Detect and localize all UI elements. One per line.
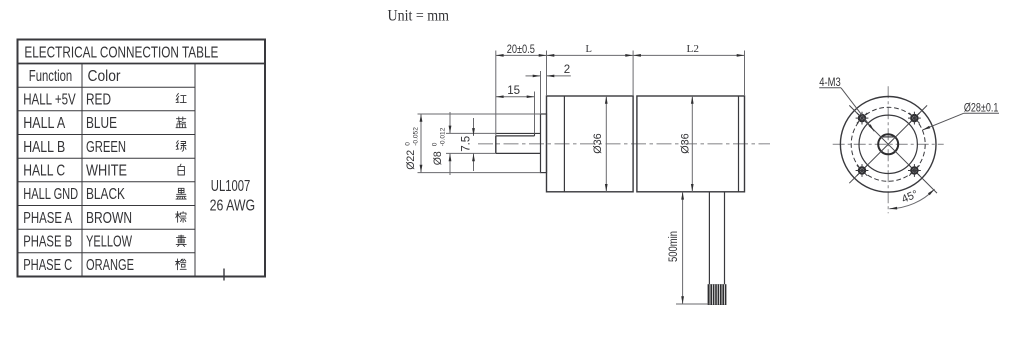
extension line boss left — [540, 71, 542, 114]
svg-text:26 AWG: 26 AWG — [210, 198, 256, 215]
svg-text:500min: 500min — [668, 231, 680, 262]
45 degree angle dimension — [889, 189, 934, 209]
mounting hole M3 bottom-left — [859, 167, 865, 173]
table row lines — [18, 87, 196, 253]
dimension Ø36 gearbox — [605, 96, 607, 192]
svg-text:Color: Color — [88, 68, 121, 85]
svg-text:-0.052: -0.052 — [413, 127, 420, 146]
dimension L2 — [633, 54, 744, 56]
mounting hole M3 top-left — [859, 115, 865, 121]
svg-text:Ø36: Ø36 — [592, 133, 604, 154]
chinese character 黑 hei (black) — [176, 188, 186, 199]
svg-text:BROWN: BROWN — [86, 210, 132, 227]
dimension Ø8 with tolerance — [449, 112, 451, 133]
chinese character 黄 huang (yellow) — [176, 235, 186, 246]
svg-text:ELECTRICAL CONNECTION TABLE: ELECTRICAL CONNECTION TABLE — [24, 45, 218, 62]
svg-text:45°: 45° — [900, 188, 920, 206]
diagonal centerline SW-NE — [849, 105, 927, 183]
dimension Ø36 motor — [691, 96, 693, 192]
extension line flat end — [534, 92, 536, 134]
svg-text:-0.012: -0.012 — [439, 127, 446, 146]
extension lines Ø8 shaft — [446, 132, 496, 134]
extension line motor rear — [744, 51, 746, 97]
svg-text:0: 0 — [405, 142, 412, 146]
svg-text:PHASE A: PHASE A — [23, 210, 72, 227]
chinese character 红 hong (red) — [176, 93, 186, 102]
dimension 2 — [526, 75, 541, 77]
front view shaft hole Ø8 — [878, 134, 898, 154]
dimension 20±0.5 — [496, 54, 547, 56]
gearbox body outline — [547, 96, 634, 192]
extension lines Ø22 boss — [418, 113, 541, 115]
gearbox front plate line — [563, 96, 565, 192]
svg-text:HALL B: HALL B — [23, 139, 65, 156]
svg-text:Ø22: Ø22 — [405, 150, 417, 170]
svg-text:WHITE: WHITE — [86, 162, 127, 179]
svg-text:UL1007: UL1007 — [211, 178, 251, 195]
cable outline — [708, 192, 710, 284]
svg-text:PHASE C: PHASE C — [23, 257, 72, 274]
motor end cap line — [738, 96, 740, 192]
chinese character 棕 zong (brown) — [176, 212, 186, 223]
svg-text:HALL +5V: HALL +5V — [23, 91, 76, 108]
dimension L — [547, 54, 634, 56]
mounting hole M3 bottom-right — [911, 167, 917, 173]
mounting hole M3 top-right — [911, 115, 917, 121]
svg-text:Ø36: Ø36 — [679, 133, 691, 154]
chinese character 绿 lv (green) — [176, 141, 186, 152]
svg-text:4-M3: 4-M3 — [819, 77, 841, 89]
front view bolt circle Ø28 dashed — [851, 107, 925, 181]
chinese character 蓝 lan (blue) — [176, 117, 186, 128]
svg-text:Unit = mm: Unit = mm — [388, 7, 450, 24]
front view outer circle Ø36 — [840, 97, 936, 193]
extension line gearbox rear — [632, 51, 634, 97]
side view centerline — [478, 143, 770, 145]
svg-text:0: 0 — [431, 142, 438, 146]
front boss Ø22 — [541, 114, 547, 173]
chinese character 白 bai (white) — [178, 164, 184, 175]
svg-text:Ø8: Ø8 — [432, 151, 444, 165]
dimension Ø22 with tolerance — [420, 114, 422, 173]
dimension 15 — [496, 96, 535, 98]
extension line gearbox face — [546, 51, 548, 97]
table column line 1 — [81, 64, 83, 277]
dimension 7.5 — [473, 118, 475, 136]
diagonal centerline NW-SE — [849, 105, 937, 193]
table column line 2 — [194, 64, 196, 277]
front view horizontal centerline — [833, 143, 944, 145]
svg-text:YELLOW: YELLOW — [86, 233, 132, 250]
electrical connection table outer border — [18, 40, 266, 277]
svg-text:HALL A: HALL A — [23, 115, 66, 132]
extension line shaft tip — [495, 51, 497, 136]
svg-text:Ø28±0.1: Ø28±0.1 — [964, 102, 999, 114]
svg-text:HALL GND: HALL GND — [23, 186, 78, 203]
svg-text:20±0.5: 20±0.5 — [507, 44, 535, 56]
svg-text:L: L — [586, 44, 592, 55]
svg-text:BLACK: BLACK — [86, 186, 125, 203]
cable wire strands — [708, 284, 727, 305]
svg-text:PHASE B: PHASE B — [23, 233, 72, 250]
shaft outline — [496, 132, 541, 134]
chinese character 橙 cheng (orange) — [176, 259, 187, 270]
table bottom tick mark — [223, 269, 225, 281]
dimension 500min — [682, 192, 684, 304]
svg-text:15: 15 — [507, 85, 520, 97]
svg-text:Function: Function — [29, 68, 72, 85]
shaft flat chord — [882, 136, 895, 138]
svg-text:HALL C: HALL C — [23, 162, 65, 179]
svg-text:GREEN: GREEN — [86, 139, 126, 156]
front view boss circle Ø22 — [859, 115, 917, 173]
svg-text:7.5: 7.5 — [461, 136, 473, 152]
svg-text:2: 2 — [564, 64, 570, 76]
svg-text:BLUE: BLUE — [86, 115, 117, 132]
table title separator line — [18, 63, 266, 65]
svg-text:RED: RED — [86, 91, 111, 108]
front view vertical centerline — [887, 86, 889, 213]
motor body outline — [637, 96, 745, 192]
svg-text:ORANGE: ORANGE — [86, 257, 134, 274]
svg-text:L2: L2 — [687, 44, 700, 55]
